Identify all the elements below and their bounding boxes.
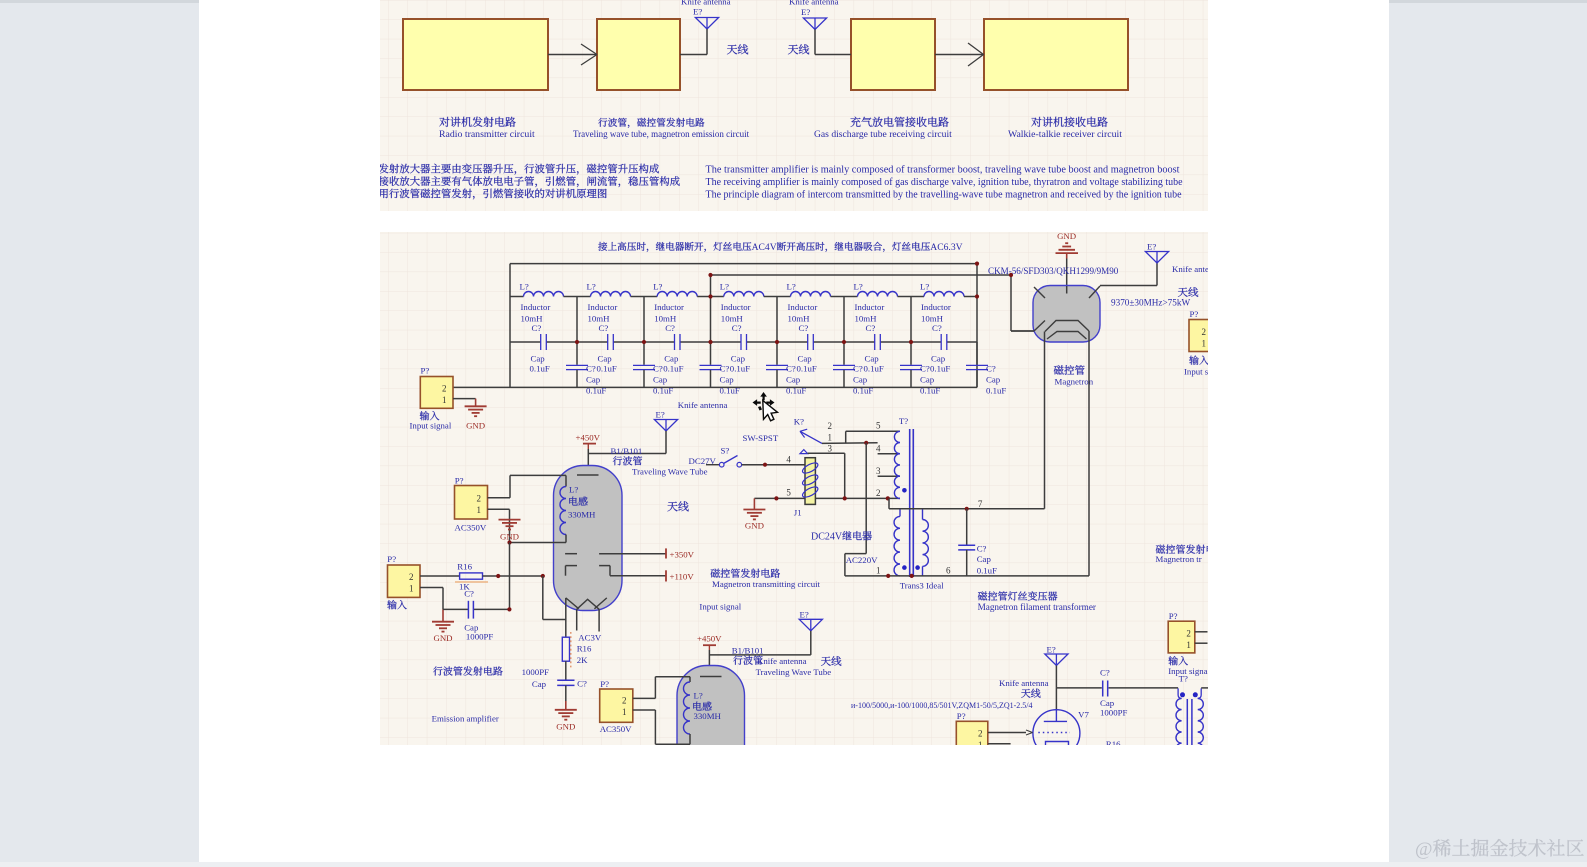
capacitor C? series #5 0.1uF [777,323,844,373]
svg-text:2: 2 [477,494,482,504]
svg-text:Emission amplifier: Emission amplifier [432,714,499,724]
watermark text [1415,839,1584,860]
wire pin7 row [923,499,1045,511]
block: traveling wave tube / magnetron emission circuit [597,19,680,90]
svg-text:Inductor: Inductor [588,302,618,312]
inductor L? #7 10mH [911,282,977,324]
svg-text:Knife antenna: Knife antenna [678,400,728,410]
svg-text:E?: E? [801,7,810,17]
svg-text:0.1uF: 0.1uF [864,363,884,373]
svg-text:C?: C? [977,543,987,553]
svg-text:C?: C? [853,363,863,373]
caption block4 [1008,117,1122,140]
wire pin6/pin1 bottom rail [845,566,1089,579]
net label B1/B101 行波管 Traveling Wave Tube [611,446,708,477]
svg-text:Cap: Cap [1100,698,1115,708]
svg-text:1: 1 [1202,339,1207,349]
wire LC section boundary #1 [575,297,579,345]
svg-text:9370±30MHz>75kW: 9370±30MHz>75kW [1111,298,1190,308]
svg-text:GND: GND [433,633,452,643]
svg-text:AC350V: AC350V [600,724,632,734]
label 天线 (transmit antenna) [727,44,748,54]
wire P? pin2 to V7 with arrow [988,730,1033,735]
svg-text:3: 3 [876,466,881,476]
svg-text:Cap: Cap [586,375,601,385]
label AC220V [846,555,878,565]
antenna E? (magnetron knife antenna) [1100,242,1209,286]
svg-text:0.1uF: 0.1uF [920,385,940,395]
transformer T? (output, clipped) [1176,674,1208,755]
wire LC feed to magnetron [708,262,1034,332]
wire magnetron cathode right [1088,331,1090,576]
svg-text:6: 6 [946,566,951,576]
wire magnetron cathode left [1044,332,1046,509]
traveling wave tube V2 [677,666,745,810]
svg-text:+350V: +350V [670,549,695,559]
svg-text:1: 1 [1186,640,1191,650]
wire LC right edge [976,264,978,388]
antenna E? (output knife antenna) [1045,645,1068,688]
svg-text:Cap: Cap [977,554,992,564]
wire P? pin1 stub (clipped) [988,743,1011,745]
caption block1 [439,117,535,140]
inductor L? 电感 330MH (TWT1) [510,475,597,542]
inductor L? #4 10mH [711,282,778,324]
connector P? (V7 input) [956,711,988,752]
svg-text:L?: L? [569,485,578,495]
label CKM-56/SFD303/QKH1299/9M90 [988,266,1119,276]
wire junction to cap row [507,540,511,609]
svg-text:L?: L? [520,282,529,292]
label 输入 (emission amplifier input) [387,600,407,609]
inductor L? #2 10mH [577,282,644,324]
wire LC top bus [510,263,977,265]
svg-text:0.1uF: 0.1uF [586,385,606,395]
svg-text:Inductor: Inductor [788,302,818,312]
svg-text:10mH: 10mH [788,314,811,324]
label 行波管发射电路 Emission amplifier [432,666,503,723]
wire LC section boundary #2 [642,297,646,345]
svg-text:Walkie-talkie receiver circuit: Walkie-talkie receiver circuit [1008,129,1122,140]
svg-text:E?: E? [1047,645,1056,655]
svg-text:J1: J1 [794,508,802,518]
wire switch to J1 pin4 [742,463,805,467]
svg-text:@: @ [1415,839,1433,860]
svg-text:1: 1 [409,584,414,594]
svg-text:GND: GND [745,521,764,531]
wire T2 step to secondary [889,498,923,508]
svg-text:Knife ante: Knife ante [1172,264,1209,274]
svg-text:0.1uF: 0.1uF [720,385,740,395]
svg-text:2: 2 [828,421,833,431]
svg-text:E?: E? [656,410,665,420]
wire K1 (AC220V) [822,441,878,445]
svg-text:L?: L? [587,282,596,292]
svg-text:+450V: +450V [576,433,601,443]
svg-text:Cap: Cap [532,679,547,689]
svg-text:C?: C? [786,363,796,373]
svg-text:10mH: 10mH [855,314,878,324]
svg-text:+110V: +110V [670,571,695,581]
label 天线 (TWT2) [821,656,841,666]
wire LC section boundary #4 [775,297,779,345]
label 输入 Input signal (bottom right) [1168,656,1207,676]
svg-text:S?: S? [721,445,730,455]
capacitor C? series #4 0.1uF [711,323,778,373]
wire AC220V drop [845,443,866,576]
svg-text:P?: P? [1169,611,1178,621]
svg-text:B1/B101: B1/B101 [611,446,643,456]
svg-text:1: 1 [477,505,482,515]
capacitor C? 1000PF (input coupling) [443,589,512,642]
label AC3V [578,633,602,643]
wire LC section boundary #6 [909,297,913,345]
svg-text:Cap: Cap [853,375,868,385]
wire P? AC350V pin2 [488,475,511,497]
switch S7 SW-SPST DC27V [689,433,779,467]
svg-text:Input signal: Input signal [410,421,452,431]
capacitor C? series #6 0.1uF [844,323,911,373]
svg-text:Cap: Cap [786,375,801,385]
svg-text:AC220V: AC220V [846,555,878,565]
svg-text:Traveling Wave Tube: Traveling Wave Tube [756,667,832,677]
svg-text:Magnetron transmitting circuit: Magnetron transmitting circuit [712,579,821,589]
svg-text:Knife antenna: Knife antenna [757,656,807,666]
svg-text:GND: GND [500,532,519,542]
svg-text:2: 2 [409,572,414,582]
svg-text:0.1uF: 0.1uF [930,363,950,373]
svg-text:330MH: 330MH [694,711,722,721]
svg-text:E?: E? [693,7,702,17]
svg-text:AC4V: AC4V [752,242,777,253]
svg-text:K?: K? [794,417,804,427]
svg-text:10mH: 10mH [654,314,677,324]
ground GND (emission amplifier input) [432,609,454,642]
label 输入 Input signal (right edge) [1184,356,1216,377]
capacitor C? series #7 0.1uF [911,323,977,373]
connector P? (bottom right) [1168,611,1207,653]
svg-text:5: 5 [786,488,791,498]
svg-text:CKM-56/SFD303/QKH1299/9M90: CKM-56/SFD303/QKH1299/9M90 [988,266,1119,276]
svg-text:Knife antenna: Knife antenna [681,0,731,7]
block: gas discharge tube receiving circuit [851,19,935,90]
description chinese [379,164,680,200]
svg-text:L?: L? [720,282,729,292]
wire +450V to TWT1 anode [588,449,666,475]
label Input signal (stray) [699,602,741,612]
svg-text:Inductor: Inductor [521,302,551,312]
svg-text:The transmitter amplifier is m: The transmitter amplifier is mainly comp… [706,165,1180,176]
ground GND (LC input) [465,406,487,430]
svg-text:Gas discharge tube receiving c: Gas discharge tube receiving circuit [814,129,952,140]
svg-text:4: 4 [876,444,881,454]
svg-text:B1/B101: B1/B101 [732,646,764,656]
wire P? pin2 to R16 [420,575,460,577]
mouse cursor [753,392,778,421]
svg-text:2: 2 [622,696,627,706]
ground GND (cathode bypass) [555,685,577,731]
svg-text:10mH: 10mH [921,314,944,324]
svg-text:10mH: 10mH [721,314,744,324]
svg-text:P?: P? [1190,309,1199,319]
connector P? AC350V (TWT1) [455,476,488,533]
wire P? pin1 to gnd [453,399,476,406]
wire TWT1 cathode lead [566,598,599,637]
wire grid jog to cathode lead [543,576,566,620]
svg-text:4: 4 [786,455,791,465]
svg-text:0.1uF: 0.1uF [597,363,617,373]
svg-text:R16: R16 [577,644,592,654]
block: radio transmitter circuit [403,19,548,90]
svg-text:V7: V7 [1078,709,1089,719]
svg-text:1: 1 [828,432,833,442]
svg-text:E?: E? [1147,242,1156,252]
svg-text:Cap: Cap [931,354,946,364]
svg-text:10mH: 10mH [521,314,544,324]
svg-text:Traveling Wave Tube: Traveling Wave Tube [632,467,708,477]
svg-text:AC6.3V: AC6.3V [930,242,962,253]
svg-text:C?: C? [532,323,542,333]
svg-text:L?: L? [694,691,703,701]
label 天线 (receive antenna) [788,44,809,54]
svg-text:C?: C? [653,363,663,373]
svg-text:L?: L? [653,282,662,292]
svg-text:L?: L? [787,282,796,292]
tube V7 (ignition tube) [1033,709,1090,756]
caption block3 [814,117,952,140]
svg-text:C?: C? [599,323,609,333]
inductor L? #1 10mH [510,282,577,324]
label 天线 9370MHz [1111,287,1198,307]
ground GND (TWT1 cathode circuit) [499,520,521,542]
svg-text:AC350V: AC350V [455,523,487,533]
svg-text:0.1uF: 0.1uF [977,566,997,576]
svg-text:P?: P? [957,711,966,721]
svg-text:1: 1 [622,707,627,717]
svg-text:C?: C? [586,363,596,373]
svg-text:2: 2 [876,488,881,498]
svg-text:GND: GND [1057,231,1076,241]
svg-text:5: 5 [876,421,881,431]
capacitor C? shunt #2 0.1uF [633,342,673,395]
transformer T? Trans3 Ideal [876,416,944,591]
power +350V bar [599,548,695,559]
note text about relay and filament voltage [598,242,962,253]
svg-text:Input signal: Input signal [699,602,741,612]
svg-text:T?: T? [899,416,908,426]
capacitor C? 1000PF (cathode bypass) [522,661,587,689]
inductor L? #5 10mH [777,282,844,324]
svg-text:+450V: +450V [697,634,722,644]
svg-text:0.1uF: 0.1uF [653,385,673,395]
wire P? AC350V pin1 (TWT2) [633,709,656,711]
relay contact K? [794,417,833,454]
wire P? pin1 [420,588,443,610]
label tube types [851,701,1033,710]
svg-text:и-100/5000,и-100/1000,85/501V,: и-100/5000,и-100/1000,85/501V,ZQM1-50/5,… [851,701,1033,710]
antenna E? (TWT1 knife antenna) [654,400,727,454]
svg-text:SW-SPST: SW-SPST [743,433,779,443]
resistor R16 2K (cathode) [562,632,592,668]
capacitor C? series #2 0.1uF [577,323,644,373]
svg-text:C?: C? [720,363,730,373]
svg-text:C?: C? [920,363,930,373]
label Knife antenna 天线 (output) [999,678,1049,698]
power +450V (TWT1) [576,433,601,450]
svg-text:Knife antenna: Knife antenna [999,678,1049,688]
svg-text:Cap: Cap [531,354,546,364]
capacitor C? series #1 0.1uF [510,323,577,373]
svg-text:Input signa: Input signa [1168,666,1207,676]
capacitor C? shunt #4 0.1uF [766,342,806,395]
svg-text:Inductor: Inductor [654,302,684,312]
svg-text:3: 3 [828,443,833,453]
wire LC section boundary #3 [708,297,712,345]
svg-text:E?: E? [800,610,809,620]
svg-text:Magnetron: Magnetron [1055,377,1094,387]
svg-text:L?: L? [854,282,863,292]
capacitor C? series #3 0.1uF [644,323,711,373]
capacitor C? shunt #1 0.1uF [566,342,606,395]
label DC24V继电器 [811,531,872,542]
capacitor C? shunt #5 0.1uF [833,342,873,395]
wire LC bottom bus [453,386,977,388]
wire K2 to T5 [846,431,900,443]
label 磁控管发射电路 Magnetron transmitting circuit [711,569,821,589]
svg-text:Radio transmitter circuit: Radio transmitter circuit [439,129,535,140]
svg-text:Cap: Cap [720,375,735,385]
inductor L? #6 10mH [844,282,911,324]
antenna E? (transmit knife antenna) [680,0,731,55]
svg-text:Cap: Cap [664,354,679,364]
svg-text:Inductor: Inductor [855,302,885,312]
svg-text:P?: P? [455,476,464,486]
connector P? (right edge) [1189,309,1209,352]
wire P? AC350V pin2 (TWT2) [633,697,656,699]
svg-text:C?: C? [665,323,675,333]
svg-text:Traveling wave tube, magnetron: Traveling wave tube, magnetron emission … [573,129,750,139]
svg-text:0.1uF: 0.1uF [786,385,806,395]
svg-text:1: 1 [442,395,447,405]
arrow block3 to block4 [935,43,984,66]
svg-text:Cap: Cap [653,375,668,385]
svg-text:10mH: 10mH [588,314,611,324]
svg-text:7: 7 [978,499,983,509]
svg-text:0.1uF: 0.1uF [663,363,683,373]
svg-text:Inductor: Inductor [721,302,751,312]
svg-text:Inductor: Inductor [921,302,951,312]
svg-text:DC24V: DC24V [811,532,843,543]
caption block2 [573,118,750,139]
wire K3 to J1 pin5 [808,453,845,498]
svg-text:C?: C? [732,323,742,333]
wire antenna row [1056,688,1101,711]
antenna E? (receive knife antenna) [789,0,851,55]
svg-text:GND: GND [466,421,485,431]
svg-text:C?: C? [1100,668,1110,678]
svg-text:0.1uF: 0.1uF [853,385,873,395]
svg-text:C?: C? [866,323,876,333]
wire LC left edge [509,264,511,388]
svg-text:R16: R16 [457,562,472,572]
svg-text:P?: P? [600,679,609,689]
power +110V bar [610,570,694,581]
capacitor C? 1000PF (output) [1100,668,1178,718]
label 输入 Input signal (LC input) [410,411,452,431]
inductor L? #3 10mH [644,282,711,324]
resistor R16 1K [455,562,488,592]
svg-text:Magnetron filament transformer: Magnetron filament transformer [978,602,1096,612]
magnetron tube V (CKM-56) [1011,286,1100,343]
svg-text:C?: C? [464,589,474,599]
wire gnd to magnetron [1066,259,1068,287]
svg-text:Cap: Cap [798,354,813,364]
ground GND (relay coil) [743,498,765,530]
wire +450V TWT2 / antenna row [709,650,810,677]
label R16 (clipped) [1106,739,1121,749]
svg-text:2: 2 [1202,327,1207,337]
capacitor C? shunt #6 0.1uF [900,342,940,395]
svg-text:1000PF: 1000PF [466,632,493,642]
svg-text:GND: GND [556,722,575,732]
svg-text:2K: 2K [577,655,588,665]
svg-text:The receiving amplifier is mai: The receiving amplifier is mainly compos… [706,177,1183,188]
svg-text:Cap: Cap [731,354,746,364]
svg-text:AC3V: AC3V [578,633,602,643]
block: walkie-talkie receiver circuit [984,19,1128,90]
svg-text:C?: C? [932,323,942,333]
svg-text:Trans3 Ideal: Trans3 Ideal [900,581,944,591]
wire LC section boundary #5 [842,297,846,345]
ground GND (magnetron anode) [1056,231,1079,259]
svg-text:L?: L? [920,282,929,292]
wire R16 to TWT1 grid [483,574,545,578]
svg-text:0.1uF: 0.1uF [797,363,817,373]
capacitor C? shunt #7 0.1uF [966,342,1006,395]
labels B1/B101 行波管 (TWT2) [732,646,831,678]
wire J1 pin5 / T2 row [754,496,900,500]
svg-text:Knife antenna: Knife antenna [789,0,839,7]
svg-text:Cap: Cap [598,354,613,364]
capacitor C? shunt #3 0.1uF [700,342,740,395]
arrow block1 to block2 [548,44,597,65]
svg-text:1000PF: 1000PF [522,667,549,677]
svg-text:0.1uF: 0.1uF [730,363,750,373]
svg-text:1: 1 [876,566,881,576]
power +450V (TWT2) [697,634,722,651]
svg-text:P?: P? [421,366,430,376]
capacitor C? 0.1uF (filament) [958,509,997,576]
description english [706,165,1183,201]
antenna E? (TWT2) [799,610,822,655]
label 天线 (TWT1) [667,501,688,511]
connector P? AC350V (TWT2) [600,679,633,734]
svg-text:330MH: 330MH [568,510,596,520]
svg-text:C?: C? [799,323,809,333]
svg-text:2: 2 [978,729,983,739]
svg-text:0.1uF: 0.1uF [986,385,1006,395]
svg-text:Magnetron tr: Magnetron tr [1156,554,1202,564]
traveling wave tube V1 [554,466,623,611]
connector P? input (emission amplifier) [387,554,420,597]
svg-text:0.1uF: 0.1uF [530,363,550,373]
svg-text:2: 2 [442,384,447,394]
svg-text:Cap: Cap [920,375,935,385]
svg-text:1000PF: 1000PF [1100,708,1127,718]
label 磁控管 Magnetron [1054,365,1094,386]
relay coil J1 [786,455,819,518]
svg-text:C?: C? [986,363,996,373]
